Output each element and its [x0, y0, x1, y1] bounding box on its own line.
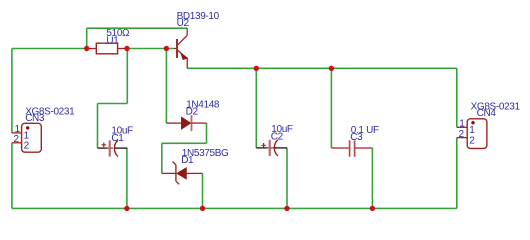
wire: CN4 pin2 drop	[456, 138, 458, 209]
junction C2 at ground rail	[284, 206, 289, 211]
wire: D1 cathode drop	[161, 143, 163, 173]
wire: C2 lower vertical to ground rail	[286, 148, 288, 209]
wire: C3 lower vertical to ground rail	[371, 148, 373, 208]
capacitor C2 (10uF polarized)	[256, 140, 287, 156]
connector CN3 (XG8S-0231)	[12, 123, 41, 152]
wire: D2-D1 horizontal link	[162, 142, 207, 144]
junction at C3 branch on emitter rail	[329, 66, 334, 71]
connector CN4 (XG8S-0231)	[457, 119, 487, 149]
wire: CN3 pin1 riser	[11, 49, 13, 133]
wire: D1 anode to ground rail	[202, 173, 204, 208]
junction at resistor output / C1 branch	[124, 46, 129, 51]
wire: D2 anode riser	[165, 49, 167, 124]
wire: top rail to collector	[87, 27, 188, 29]
capacitor C3 (0.1uF)	[331, 140, 372, 156]
wire: CN3 pin2 drop	[11, 143, 13, 209]
diode D2 (1N4148)	[166, 115, 206, 131]
svg-text:U2: U2	[177, 18, 190, 29]
wire: C1 branch horizontal jog	[98, 103, 128, 105]
svg-text:2: 2	[459, 129, 465, 140]
svg-text:CN4: CN4	[477, 108, 497, 119]
svg-text:2: 2	[14, 134, 20, 145]
svg-text:2: 2	[469, 135, 475, 146]
svg-text:C1: C1	[111, 133, 124, 144]
svg-text:C3: C3	[350, 132, 363, 143]
resistor U1	[87, 43, 127, 54]
svg-text:D1: D1	[181, 155, 194, 166]
svg-text:C2: C2	[271, 131, 284, 142]
wire: D2 cathode drop	[206, 123, 208, 143]
wire: top-left horizontal segment to resistor	[12, 48, 87, 50]
junction C3 at ground rail	[370, 206, 375, 211]
wire: C1 branch upper vertical	[126, 49, 128, 104]
junction at resistor input	[84, 46, 89, 51]
wire: C2 riser	[255, 68, 257, 148]
zener diode D1 (1N5375BG)	[162, 162, 203, 185]
junction D1 at ground rail	[200, 206, 205, 211]
wire: emitter output rail	[187, 67, 457, 69]
wire: bottom ground rail	[12, 207, 457, 209]
junction at D2 branch / base	[164, 46, 169, 51]
wire: C3 riser	[330, 68, 332, 148]
wire: C1 lower vertical to ground rail	[126, 148, 128, 208]
svg-text:CN3: CN3	[25, 113, 45, 124]
svg-text:2: 2	[24, 140, 30, 151]
capacitor C1 (10uF polarized)	[98, 140, 128, 156]
wire: CN4 pin1 riser	[456, 68, 458, 127]
svg-text:D2: D2	[186, 106, 199, 117]
wire: C1 left riser	[97, 104, 99, 149]
wire: resistor output to transistor base	[127, 48, 173, 50]
wire: vertical above left junction	[86, 28, 88, 48]
transistor U2 (NPN BD139-10)	[173, 28, 188, 68]
svg-text:U1: U1	[106, 35, 119, 46]
junction at C2 branch on emitter rail	[254, 66, 259, 71]
junction C1 at ground rail	[124, 206, 129, 211]
